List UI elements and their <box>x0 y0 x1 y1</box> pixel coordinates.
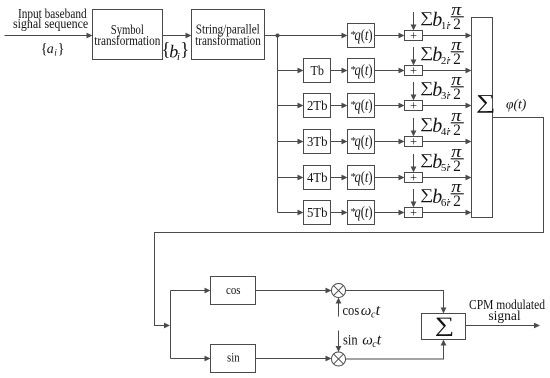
wire: phase weight feed into adder row3 <box>413 82 415 96</box>
wire: bus to sin box <box>171 358 207 360</box>
wire: delay Tb to q(t) <box>331 70 344 72</box>
svg-text:Tb: Tb <box>310 63 324 78</box>
block: pulse filter *q(t) row1 <box>348 24 375 48</box>
wire: bus to delay 2Tb <box>278 105 300 107</box>
wire: sin box to multiplier <box>256 358 328 360</box>
wire: vertical distribution bus <box>277 36 279 213</box>
wire: bus to delay 4Tb <box>278 177 300 179</box>
svg-text:2: 2 <box>453 86 461 103</box>
wire: adder to summation row1 <box>423 35 468 37</box>
arrow down into adder row3 <box>411 95 417 101</box>
label: sum b1i . pi/2 row1 <box>420 0 464 33</box>
arrow into adder row5 <box>399 175 405 181</box>
svg-text:·: · <box>448 194 452 209</box>
svg-text:∑: ∑ <box>476 92 495 114</box>
wire: delay 5Tb to q(t) <box>331 212 344 214</box>
arrow down into adder row4 <box>411 131 417 137</box>
wire: q(t) to adder row4 <box>375 141 401 143</box>
block: delay 3Tb <box>304 130 331 154</box>
svg-text:transformation: transformation <box>94 34 160 49</box>
wire: bus to delay 3Tb <box>278 141 300 143</box>
block: sin <box>211 345 256 373</box>
svg-text:2: 2 <box>453 193 461 210</box>
wire: cos multiplier to output summation <box>346 291 444 310</box>
svg-text:a: a <box>47 42 54 57</box>
arrow down into sin multiplier <box>336 346 342 352</box>
arrow into q(t) row6 <box>342 210 348 216</box>
svg-text:2Tb: 2Tb <box>307 98 328 113</box>
arrow into q(t) row5 <box>342 175 348 181</box>
block: delay 2Tb <box>304 94 331 118</box>
block: adder + row6 <box>405 205 423 219</box>
svg-text:ω: ω <box>361 303 372 319</box>
wire: bus to cos box <box>171 290 207 292</box>
arrow into adder row4 <box>399 139 405 145</box>
block: String/parallel transformation <box>192 10 265 60</box>
wire: carrier cos feed <box>338 302 340 317</box>
arrow into Symbol transformation box <box>87 33 93 39</box>
block: delay 4Tb <box>304 166 331 190</box>
wire: adder to summation row3 <box>423 105 468 107</box>
wire: bus to q(t) row1 <box>278 35 344 37</box>
svg-text:q(t): q(t) <box>355 97 373 114</box>
svg-text:4Tb: 4Tb <box>307 170 328 185</box>
label: sum b4i . pi/2 row4 <box>420 106 464 139</box>
label: cos wc t <box>343 302 381 321</box>
svg-text:cos: cos <box>343 303 360 319</box>
arrow into delay 5Tb <box>298 210 304 216</box>
arrow into cos box <box>205 288 211 294</box>
block: delay Tb <box>304 59 331 83</box>
wire: adder to summation row2 <box>423 70 468 72</box>
arrow into summation row4 <box>466 139 472 145</box>
wire: sin multiplier to output summation <box>346 344 444 359</box>
multiplier circle (cos branch) <box>332 284 346 298</box>
arrow into delay Tb <box>298 68 304 74</box>
arrow down into output summation <box>441 308 447 314</box>
block: adder + row3 <box>405 98 423 112</box>
wire: string/parallel box to distribution bus <box>265 35 278 37</box>
block: adder + row5 <box>405 170 423 184</box>
svg-text:t: t <box>376 302 381 319</box>
arrow into cos multiplier <box>326 288 332 294</box>
block: adder + row2 <box>405 63 423 77</box>
svg-text:}: } <box>58 41 65 57</box>
arrow into summation row3 <box>466 103 472 109</box>
arrow into adder row6 <box>399 210 405 216</box>
arrow into summation row5 <box>466 175 472 181</box>
label: sum b3i . pi/2 row3 <box>420 70 464 103</box>
wire: q(t) to adder row3 <box>375 105 401 107</box>
svg-text:sin: sin <box>343 333 358 349</box>
wire: phase weight feed into adder row4 <box>413 118 415 132</box>
svg-text:·: · <box>448 87 452 102</box>
arrow into q(t) row1 <box>342 33 348 39</box>
wire: q(t) to adder row1 <box>375 35 401 37</box>
wire: delay 4Tb to q(t) <box>331 177 344 179</box>
svg-text:2: 2 <box>453 16 461 33</box>
block: pulse filter *q(t) row6 <box>348 201 375 225</box>
arrow down into adder row5 <box>411 167 417 173</box>
svg-text:2: 2 <box>453 158 461 175</box>
svg-text:2: 2 <box>453 122 461 139</box>
svg-text:5Tb: 5Tb <box>307 205 328 220</box>
arrow down into adder row6 <box>411 202 417 208</box>
arrow into q(t) row3 <box>342 103 348 109</box>
node label {b_i} <box>162 41 190 64</box>
arrow into String/parallel box <box>186 33 192 39</box>
arrow: CPM output <box>534 323 540 329</box>
svg-text:t: t <box>377 332 382 349</box>
wire: adder to summation row6 <box>423 212 468 214</box>
svg-text:cos: cos <box>226 283 241 297</box>
node label phi(t) <box>506 97 527 112</box>
multiplier circle (sin branch) <box>332 352 346 366</box>
block: pulse filter *q(t) row3 <box>348 94 375 118</box>
svg-text:·: · <box>448 52 452 67</box>
arrow into q(t) row4 <box>342 139 348 145</box>
block: phase summation SIGMA <box>472 18 496 218</box>
block: output summation SIGMA <box>422 313 466 339</box>
svg-text:q(t): q(t) <box>355 204 373 221</box>
label: sin wc t <box>343 332 382 351</box>
arrow into q(t) row2 <box>342 68 348 74</box>
label: sum b5i . pi/2 row5 <box>420 142 464 175</box>
arrow down into adder row2 <box>411 60 417 66</box>
wire: input line <box>5 35 88 37</box>
svg-text:3Tb: 3Tb <box>307 134 328 149</box>
arrow into adder row2 <box>399 68 405 74</box>
wire: delay 2Tb to q(t) <box>331 105 344 107</box>
wire: q(t) to adder row5 <box>375 177 401 179</box>
block: pulse filter *q(t) row5 <box>348 166 375 190</box>
wire: phi(t) feedback path <box>155 118 544 326</box>
node label {a_i} <box>41 41 65 59</box>
wire: adder to summation row5 <box>423 177 468 179</box>
label: Input baseband signal sequence <box>13 6 88 31</box>
svg-text:2: 2 <box>453 51 461 68</box>
wire: q(t) to adder row2 <box>375 70 401 72</box>
wire: quadrature split bus <box>170 291 172 359</box>
block: delay 5Tb <box>304 201 331 225</box>
svg-text:sin: sin <box>227 351 240 365</box>
arrow into delay 3Tb <box>298 139 304 145</box>
wire: CPM output <box>466 325 535 327</box>
svg-text:signal: signal <box>488 308 520 323</box>
label: sum b6i . pi/2 row6 <box>420 177 464 210</box>
arrow into adder row3 <box>399 103 405 109</box>
wire: phase weight feed into adder row5 <box>413 154 415 168</box>
arrow into delay 2Tb <box>298 103 304 109</box>
block: pulse filter *q(t) row2 <box>348 59 375 83</box>
wire: bus to delay Tb <box>278 70 300 72</box>
wire: symbol box to string/parallel box <box>163 35 188 37</box>
wire: q(t) to adder row6 <box>375 212 401 214</box>
wire: delay 3Tb to q(t) <box>331 141 344 143</box>
arrow into delay 4Tb <box>298 175 304 181</box>
wire: adder to summation row4 <box>423 141 468 143</box>
arrow into sin box <box>205 356 211 362</box>
wire: phase weight feed into adder row1 <box>413 12 415 26</box>
wire: bus to delay 5Tb <box>278 212 300 214</box>
svg-text:q(t): q(t) <box>355 62 373 79</box>
arrow up into cos multiplier <box>336 298 342 304</box>
svg-text:q(t): q(t) <box>355 169 373 186</box>
arrow up into output summation <box>441 340 447 346</box>
svg-text:transformation: transformation <box>195 34 261 49</box>
block: cos <box>211 277 256 305</box>
block: adder + row4 <box>405 134 423 148</box>
wire: cos box to multiplier <box>256 290 328 292</box>
wire: phase weight feed into adder row6 <box>413 189 415 203</box>
arrow into sin multiplier <box>326 356 332 362</box>
wire: phase weight feed into adder row2 <box>413 47 415 61</box>
arrow into quadrature bus <box>164 323 170 329</box>
label: sum b2i . pi/2 row2 <box>420 35 464 68</box>
svg-text:}: } <box>180 41 189 61</box>
arrow into summation row2 <box>466 68 472 74</box>
block: Symbol transformation <box>93 10 163 60</box>
svg-text:∑: ∑ <box>435 313 454 336</box>
block: adder + row1 <box>405 28 423 42</box>
wire: carrier sin feed <box>338 331 340 348</box>
block: pulse filter *q(t) row4 <box>348 130 375 154</box>
svg-text:·: · <box>448 123 452 138</box>
arrow into summation row1 <box>466 33 472 39</box>
svg-text:q(t): q(t) <box>355 27 373 44</box>
svg-text:φ(t): φ(t) <box>506 97 527 112</box>
svg-text:signal sequence: signal sequence <box>13 16 88 31</box>
arrow down into adder row1 <box>411 25 417 31</box>
arrow into adder row1 <box>399 33 405 39</box>
arrow into summation row6 <box>466 210 472 216</box>
label: CPM modulated signal <box>469 297 545 323</box>
junction dot on bus <box>276 34 280 38</box>
svg-text:q(t): q(t) <box>355 133 373 150</box>
svg-text:·: · <box>448 159 452 174</box>
svg-text:·: · <box>448 17 452 32</box>
